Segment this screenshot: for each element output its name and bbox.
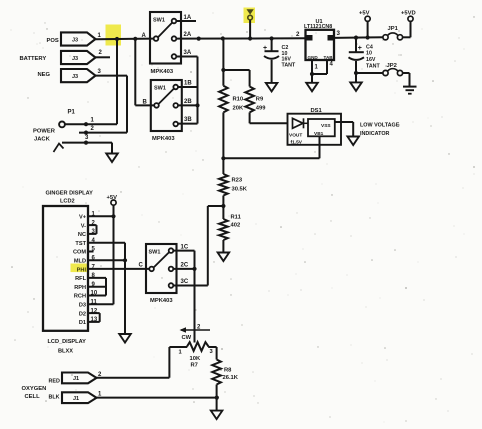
ground below C4 xyxy=(350,82,362,91)
wire LCD pin6 to ground bus xyxy=(88,259,125,261)
jack pin 1 junction xyxy=(84,122,88,126)
wire U1 pin4 down xyxy=(326,60,328,74)
wire NEG drop to jack pin2 xyxy=(126,76,128,133)
svg-text:10: 10 xyxy=(366,51,372,57)
wire tap to 3C bottom xyxy=(177,285,208,287)
svg-text:C: C xyxy=(139,262,144,268)
LED inside DS1 xyxy=(293,118,304,128)
jumper JP2 right contact xyxy=(397,70,402,75)
ground below R8 xyxy=(211,411,223,420)
svg-text:SW1: SW1 xyxy=(153,18,165,24)
switch C common contact xyxy=(149,267,154,272)
jumper JP1 left contact xyxy=(383,35,388,40)
wire LCD pin11 to +5V bus xyxy=(88,303,114,305)
wire LCD pin3 stub xyxy=(88,233,97,235)
jumper JP2 left contact xyxy=(383,70,388,75)
resistor R8 xyxy=(212,360,221,385)
wire LCD pin2-pin3 tie xyxy=(96,225,98,234)
wire pin 1A stub xyxy=(176,20,196,22)
wire LCD pin10 stub xyxy=(88,295,106,297)
svg-text:2: 2 xyxy=(296,31,300,38)
svg-text:3A: 3A xyxy=(184,50,192,56)
resistor R11 xyxy=(219,219,228,240)
svg-text:+5VD: +5VD xyxy=(401,11,416,17)
svg-text:RPH: RPH xyxy=(74,285,86,291)
switch SW1 section A box xyxy=(150,12,181,64)
wire pin 3C stub xyxy=(173,285,194,287)
svg-text:2A: 2A xyxy=(184,32,192,38)
wire pin 2B stub xyxy=(178,104,198,106)
svg-text:NC: NC xyxy=(78,232,86,238)
wire LCD pin12 stub xyxy=(88,312,100,314)
wire jack pin3 to ground xyxy=(111,143,113,154)
wire U1 pin1 down xyxy=(311,60,313,74)
svg-text:V+: V+ xyxy=(79,215,87,221)
svg-text:1C: 1C xyxy=(181,244,189,250)
svg-text:1A: 1A xyxy=(184,15,192,21)
wire node B xyxy=(135,104,154,106)
junction C4 tap xyxy=(354,36,358,40)
switch SW1 section C box xyxy=(146,244,177,293)
svg-text:MLD: MLD xyxy=(74,259,86,265)
power flag symbol xyxy=(247,9,254,14)
wire pot right lead xyxy=(208,346,216,348)
wire LCD pin5 stub xyxy=(88,251,94,253)
wire pin 3A stub xyxy=(176,56,197,58)
ground below jack xyxy=(106,154,118,163)
wire R9 bottom lead xyxy=(249,112,251,123)
wire C2 bottom lead xyxy=(271,60,273,83)
junction 2C on wiper drop xyxy=(192,267,196,271)
svg-text:JP2: JP2 xyxy=(387,63,397,69)
svg-text:VOUT: VOUT xyxy=(289,133,302,139)
wire U1 pin3 to JP1 xyxy=(334,36,383,39)
svg-text:+: + xyxy=(358,45,362,52)
wire LCD pin12-13 tie xyxy=(99,313,101,322)
svg-text:SW1: SW1 xyxy=(154,86,166,92)
ground below C2 xyxy=(266,83,278,92)
wire 3A drop to B bank xyxy=(197,57,199,124)
wire R9 top lead xyxy=(249,70,251,87)
svg-text:10K: 10K xyxy=(190,356,201,362)
svg-text:16V: 16V xyxy=(366,57,376,63)
wire LCD ground bus xyxy=(124,243,126,334)
switch A arm xyxy=(158,23,172,38)
wire POS to node A xyxy=(96,38,154,41)
junction R10/R9 split xyxy=(221,68,225,72)
junction pin6 on bus xyxy=(123,258,127,262)
highlight over top power flag xyxy=(244,8,256,24)
resistor R9 xyxy=(245,87,254,113)
svg-text:D2: D2 xyxy=(79,311,86,317)
wire LCD pin8-10 tie xyxy=(105,278,107,296)
junction U1 ground xyxy=(310,72,314,76)
svg-text:RFL: RFL xyxy=(75,276,86,282)
wire +5V drop xyxy=(367,21,369,37)
svg-text:CW: CW xyxy=(182,335,192,341)
wire node A drop to node B xyxy=(134,39,136,106)
svg-text:INDICATOR: INDICATOR xyxy=(360,131,390,137)
svg-text:JP1: JP1 xyxy=(388,26,399,32)
capacitor C4 top plate xyxy=(349,51,364,53)
capacitor C4 curved plate xyxy=(349,57,365,60)
wire DS1 output xyxy=(335,121,353,123)
wire pot right drop xyxy=(216,347,218,360)
wire rail drop center column xyxy=(222,39,224,86)
wire tap to 3C horizontal xyxy=(208,205,224,207)
jack P1 tip circle xyxy=(59,122,65,128)
switch A throw 3A contact xyxy=(172,54,177,59)
svg-text:402: 402 xyxy=(231,223,241,229)
jack pin 2 junction xyxy=(84,131,88,135)
jumper JP1 bridge xyxy=(388,33,399,36)
switch B throw 1B contact xyxy=(173,85,178,90)
svg-text:499: 499 xyxy=(256,106,266,112)
svg-text:NEG: NEG xyxy=(38,72,51,78)
svg-text:JACK: JACK xyxy=(34,137,51,143)
node 1 junction xyxy=(115,37,119,41)
svg-text:LOW VOLTAGE: LOW VOLTAGE xyxy=(360,122,400,128)
svg-text:MPK403: MPK403 xyxy=(150,298,173,304)
wire JP2 to earth xyxy=(403,72,410,74)
junction 2B on drop xyxy=(195,103,199,107)
junction VB1 tap xyxy=(221,156,225,160)
svg-text:B: B xyxy=(143,100,148,106)
switch A throw 2A contact xyxy=(172,36,177,41)
connector J3 pin 3 (NEG) xyxy=(61,69,96,82)
wire VB1 tap vertical xyxy=(319,136,321,158)
svg-text:3: 3 xyxy=(337,30,341,37)
wire pin 1C stub xyxy=(173,250,194,252)
wire RED to pot xyxy=(97,377,170,379)
svg-text:BLXX: BLXX xyxy=(58,349,73,355)
wire NEG to corner xyxy=(96,75,128,77)
svg-text:TANT: TANT xyxy=(366,64,380,70)
svg-text:R7: R7 xyxy=(191,363,198,369)
svg-text:POS: POS xyxy=(47,38,59,44)
jumper JP2 bridge xyxy=(388,69,399,72)
switch SW1 section B box xyxy=(151,80,182,131)
switch C throw 3C contact xyxy=(169,283,174,288)
svg-text:GND: GND xyxy=(308,55,319,60)
wire C4 top lead xyxy=(355,38,357,52)
wire R23 to R11 xyxy=(222,196,224,220)
capacitor C2 top plate xyxy=(265,50,279,52)
wire pin 3B stub xyxy=(178,123,198,125)
junction R23/R11 tap xyxy=(221,204,225,208)
svg-text:TST: TST xyxy=(75,241,86,247)
switch B arm xyxy=(159,89,175,105)
highlight over node 1 xyxy=(106,25,122,46)
svg-text:20K: 20K xyxy=(233,106,244,112)
svg-text:MPK403: MPK403 xyxy=(151,69,174,75)
resistor R23 xyxy=(219,174,228,196)
svg-text:R23: R23 xyxy=(232,178,243,184)
wire BATTERY pin2 stub xyxy=(96,56,111,58)
svg-text:26.1K: 26.1K xyxy=(223,375,239,381)
svg-text:R11: R11 xyxy=(231,215,242,221)
wire LCD +5V bus xyxy=(113,205,115,305)
wire U1 pin4 to pin1 xyxy=(312,73,327,75)
wire LCD pin2 stub xyxy=(88,224,97,226)
switch C arm xyxy=(154,252,170,268)
svg-text:3B: 3B xyxy=(184,117,192,123)
wire POS drop to jack pin1 xyxy=(116,39,118,124)
indicator DS1 outer box xyxy=(288,114,342,145)
svg-text:CELL: CELL xyxy=(25,394,41,400)
ground below DS1 output xyxy=(347,137,359,146)
indicator DS1 inner box xyxy=(308,119,335,136)
svg-text:J1: J1 xyxy=(73,376,79,382)
jack switch arm xyxy=(54,144,64,153)
junction LCD pin1 xyxy=(111,214,115,218)
switch A throw 1A contact xyxy=(172,19,177,24)
svg-text:R8: R8 xyxy=(224,367,232,373)
wire BLK to R8 ground node xyxy=(97,397,217,399)
wire split to R9 branch xyxy=(223,69,249,71)
svg-text:R10: R10 xyxy=(233,97,244,103)
svg-text:RED: RED xyxy=(49,379,60,385)
wire DS1 output drop xyxy=(352,122,354,137)
junction on rail at center column xyxy=(221,36,225,40)
switch B throw 2B contact xyxy=(173,103,178,108)
svg-text:J3: J3 xyxy=(72,74,78,80)
svg-text:BLK: BLK xyxy=(49,395,60,401)
ground below R11 xyxy=(218,253,230,262)
wire LCD pin13 stub xyxy=(88,321,100,323)
junction R8/BLK xyxy=(215,396,219,400)
U1 pin3 nub xyxy=(328,35,334,41)
capacitor C2 curved plate xyxy=(264,56,279,59)
switch B throw 3B contact xyxy=(173,122,178,127)
wire pot left lead xyxy=(169,346,187,348)
wire power flag drop xyxy=(249,20,251,38)
wire 1C drop to pot wiper xyxy=(194,251,196,343)
junction C4/JP2 xyxy=(354,71,358,75)
svg-text:TANT: TANT xyxy=(282,62,296,68)
wire C4 to JP2 xyxy=(356,72,383,74)
svg-text:f1.5V: f1.5V xyxy=(291,139,303,145)
svg-text:OXYGEN: OXYGEN xyxy=(22,386,47,392)
junction power flag on rail xyxy=(248,36,252,40)
wire R9 to DS1 input xyxy=(250,122,288,124)
switch A common contact xyxy=(154,36,159,41)
connector J3 pin 1 (POS) xyxy=(61,32,96,45)
wire U1 ground lead xyxy=(311,74,313,83)
connector J3 pin 2 (BATTERY) xyxy=(61,51,96,64)
resistor R10 xyxy=(219,86,228,113)
wire rail into U1 pin2 xyxy=(250,37,306,39)
potentiometer R7 body xyxy=(187,342,209,351)
svg-text:2B: 2B xyxy=(184,99,192,105)
svg-text:GINGER DISPLAY: GINGER DISPLAY xyxy=(46,190,94,196)
svg-text:P1: P1 xyxy=(68,110,76,116)
svg-text:2C: 2C xyxy=(181,262,189,268)
svg-text:1B: 1B xyxy=(184,81,192,87)
svg-text:J1: J1 xyxy=(73,396,79,402)
jack pin 1 wire xyxy=(65,123,117,125)
svg-text:V-: V- xyxy=(81,223,86,229)
wire C4 bottom lead xyxy=(355,61,357,82)
svg-text:J3: J3 xyxy=(72,37,78,43)
svg-text:COM: COM xyxy=(73,250,86,256)
svg-text:PHI: PHI xyxy=(77,267,87,273)
svg-text:J3: J3 xyxy=(72,56,78,62)
wire pot left drop xyxy=(168,347,170,378)
svg-text:R9: R9 xyxy=(256,97,264,103)
svg-text:3C: 3C xyxy=(181,279,189,285)
svg-text:BATTERY: BATTERY xyxy=(20,56,47,62)
svg-text:LCD2: LCD2 xyxy=(60,199,75,205)
wire pin 1B stub xyxy=(178,86,198,88)
wire LCD pin4 to ground bus xyxy=(88,242,125,244)
connector J1 pin 2 (RED) xyxy=(62,373,97,384)
earth ground xyxy=(403,86,417,88)
highlight over LCD pin 7 label PHI xyxy=(71,264,89,273)
svg-text:RCH: RCH xyxy=(74,294,86,300)
svg-text:D3: D3 xyxy=(79,303,86,309)
wire R10 bottom to R23 xyxy=(222,112,224,174)
wire LCD pin8 stub xyxy=(88,277,106,279)
wire pin 2C stub xyxy=(173,268,194,270)
wire R11 bottom lead xyxy=(222,240,224,253)
wire tap to 3C vertical xyxy=(207,206,209,286)
svg-text:LCD_DISPLAY: LCD_DISPLAY xyxy=(48,339,87,345)
LCD block LCD2 xyxy=(43,206,88,331)
pot wiper arrow annotation xyxy=(181,329,210,331)
op-amp U1 body xyxy=(306,30,335,60)
U1 pin2 nub xyxy=(307,35,313,41)
ground below LCD bus xyxy=(119,334,131,343)
junction C2 on rail xyxy=(270,36,274,40)
switch B common contact xyxy=(154,103,159,108)
svg-text:TAB: TAB xyxy=(324,55,334,60)
jack pin 3 wire xyxy=(62,142,112,144)
junction +5V tap xyxy=(366,35,370,39)
wire LCD pin7 to node C xyxy=(88,268,149,270)
svg-text:MPK403: MPK403 xyxy=(152,136,175,142)
jumper JP1 right contact xyxy=(397,35,402,40)
connector J1 pin 1 (BLK) xyxy=(62,392,97,403)
wire LCD pin9 stub xyxy=(88,286,106,288)
wire R8 bottom lead xyxy=(216,385,218,411)
wire JP1 to +5VD xyxy=(403,36,411,38)
svg-text:POWER: POWER xyxy=(33,129,56,135)
node A junction xyxy=(133,37,137,41)
wire LCD pin1 to +5V node xyxy=(88,215,114,217)
wire pin 2A to rail xyxy=(176,38,250,40)
wire C2 top lead xyxy=(271,39,273,52)
svg-text:30.5K: 30.5K xyxy=(232,187,248,193)
svg-text:VB1: VB1 xyxy=(314,131,324,137)
svg-text:D1: D1 xyxy=(79,320,86,326)
ground below U1 xyxy=(306,83,318,92)
jack pin 3 junction xyxy=(84,141,88,145)
svg-text:VSS: VSS xyxy=(321,123,331,129)
wire VB1 tap horizontal xyxy=(223,157,319,159)
svg-text:A: A xyxy=(142,33,147,39)
junction on rail at 3A drop xyxy=(197,37,201,41)
switch C throw 2C contact xyxy=(169,267,174,272)
switch C throw 1C contact xyxy=(169,248,174,253)
jack pin 2 wire xyxy=(79,132,127,134)
svg-text:SW1: SW1 xyxy=(149,250,161,256)
